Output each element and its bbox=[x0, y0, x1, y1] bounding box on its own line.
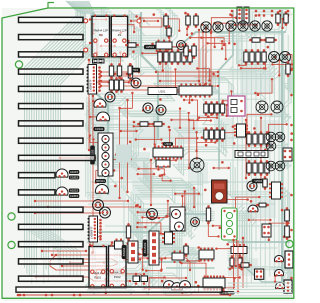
transistor Q102 bbox=[172, 283, 183, 291]
transistor Q103 bbox=[180, 281, 191, 289]
label A301 bbox=[252, 179, 264, 184]
inductor L212 bbox=[226, 21, 236, 31]
heatsink fin bbox=[19, 276, 84, 281]
heatsink fin bbox=[19, 121, 84, 126]
capacitor C101 bbox=[133, 273, 140, 285]
inductor L7 bbox=[266, 161, 276, 171]
transistor Q4 bbox=[56, 187, 68, 195]
resistor R97 bbox=[184, 243, 188, 257]
transistor Q5b bbox=[96, 185, 109, 194]
resistor R94 bbox=[256, 203, 269, 207]
inductor L201 bbox=[269, 52, 280, 63]
board clearance channels bbox=[86, 14, 228, 295]
node pad P1L bbox=[84, 19, 88, 52]
resistor R221 bbox=[250, 49, 254, 65]
svg-text:C1815: C1815 bbox=[70, 176, 79, 180]
svg-text:U201: U201 bbox=[158, 90, 166, 94]
capacitor C50 bbox=[147, 209, 158, 220]
resistor R120 bbox=[126, 223, 130, 241]
capacitor C40 bbox=[247, 181, 257, 191]
connector X6 bbox=[284, 280, 292, 293]
resistor R207 bbox=[128, 63, 132, 77]
resistor R209 bbox=[192, 43, 196, 59]
inductor L4 bbox=[266, 132, 276, 142]
heatsink fin bbox=[19, 155, 96, 160]
node U1 pads bbox=[98, 66, 101, 92]
resistor R43 bbox=[128, 63, 132, 81]
connector AS1 bbox=[98, 133, 113, 177]
connector X4 bbox=[262, 224, 271, 237]
svg-text:P102: P102 bbox=[114, 275, 121, 279]
IC U5 bbox=[162, 232, 175, 244]
resistor R208 bbox=[184, 43, 188, 59]
svg-text:AS152/3: AS152/3 bbox=[143, 242, 147, 253]
label Q4b bbox=[69, 194, 80, 198]
svg-text:P101: P101 bbox=[94, 276, 101, 280]
inductor L3 bbox=[190, 158, 204, 172]
resistor R44 bbox=[109, 77, 113, 93]
inductor L2 bbox=[271, 101, 283, 113]
capacitor C205 bbox=[131, 78, 141, 88]
wire red verticals BR bbox=[232, 237, 244, 294]
connector AS3 bbox=[149, 231, 159, 265]
resistor R50 bbox=[151, 122, 165, 126]
heatsink fin bbox=[19, 224, 84, 229]
resistor R205 bbox=[249, 38, 263, 42]
capacitor C21 bbox=[156, 105, 166, 115]
trimmer RP1 bbox=[170, 207, 185, 231]
IC U202 bbox=[179, 83, 212, 97]
resistor R81 bbox=[209, 127, 213, 142]
IC U3 bbox=[153, 145, 183, 159]
capacitor C102 bbox=[141, 273, 148, 285]
module A1 bbox=[228, 96, 245, 116]
IC U7 bbox=[203, 275, 225, 290]
capacitor C22 bbox=[105, 92, 115, 102]
relay P2 bbox=[111, 14, 127, 56]
transistor Q1 bbox=[94, 99, 106, 107]
connector X1 bbox=[237, 7, 242, 23]
label AS3 bbox=[143, 240, 148, 257]
resistor R222 bbox=[256, 49, 260, 65]
transistor Q106 bbox=[276, 282, 285, 289]
label Q3b bbox=[69, 176, 80, 180]
resistor R860 bbox=[259, 131, 263, 147]
node U1B pads bbox=[99, 219, 102, 241]
heatsink fin bbox=[19, 190, 56, 195]
IC U10 bbox=[234, 124, 248, 137]
svg-text:C1815: C1815 bbox=[70, 194, 79, 198]
resistor R204 bbox=[284, 11, 288, 26]
heatsink fin bbox=[19, 207, 84, 212]
transistor Q5 bbox=[248, 205, 258, 212]
heatsink fin bbox=[19, 259, 84, 264]
resistor R73 bbox=[220, 101, 224, 116]
inductor L214 bbox=[250, 21, 260, 31]
label A2535 bbox=[128, 68, 140, 73]
resistor R82 bbox=[215, 127, 219, 142]
resistor R851 bbox=[253, 131, 257, 147]
relay K1 bbox=[222, 208, 238, 240]
resistor R850 bbox=[247, 131, 251, 147]
resistor R80 bbox=[204, 127, 208, 142]
IC U11 bbox=[235, 151, 268, 158]
relay P101 bbox=[89, 245, 107, 289]
IC U4 bbox=[269, 182, 283, 199]
resistor R220 bbox=[244, 49, 248, 65]
resistor R49 bbox=[137, 122, 151, 126]
transistor Q2 bbox=[97, 112, 110, 121]
label AS302 bbox=[122, 245, 127, 259]
resistor R72 bbox=[215, 101, 219, 116]
heatsink fin bbox=[19, 104, 84, 109]
resistor R95b bbox=[285, 223, 290, 240]
svg-text:AS302: AS302 bbox=[122, 247, 126, 256]
mounting hole bbox=[286, 240, 293, 247]
heatsink fin bbox=[19, 35, 84, 40]
resistor R861 bbox=[265, 131, 269, 147]
wire teal bottom runs bbox=[228, 283, 292, 296]
label U3 bbox=[163, 142, 173, 146]
svg-text:RWH4 12P: RWH4 12P bbox=[94, 29, 108, 33]
resistor R214 bbox=[182, 49, 186, 65]
IC U1B bbox=[88, 216, 98, 242]
IC U301 bbox=[172, 250, 184, 263]
resistor R71 bbox=[209, 101, 213, 116]
resistor R211 bbox=[164, 49, 168, 65]
resistor R203 bbox=[276, 11, 280, 26]
label A2534 bbox=[144, 45, 156, 50]
resistor R93 bbox=[263, 176, 267, 190]
label Q3a bbox=[69, 170, 80, 174]
inductor L210 bbox=[201, 22, 211, 32]
resistor R212 bbox=[170, 49, 174, 65]
mounting hole bbox=[8, 241, 15, 248]
resistor R103 bbox=[230, 255, 234, 269]
resistor R44b bbox=[114, 77, 118, 93]
inductor L6 bbox=[266, 141, 276, 151]
inductor L211 bbox=[213, 22, 223, 32]
relay P1 bbox=[92, 14, 110, 56]
resistor R881 bbox=[265, 160, 269, 176]
transistor Q104 bbox=[275, 255, 284, 262]
resistor R105 bbox=[238, 263, 252, 267]
capacitor C206 bbox=[177, 41, 186, 50]
heatsink fin bbox=[19, 52, 84, 57]
heatsink fin bbox=[19, 242, 84, 247]
resistor R215 bbox=[188, 49, 192, 65]
capacitor C71 bbox=[100, 207, 111, 218]
transistor Q101 bbox=[164, 281, 175, 289]
svg-text:U301: U301 bbox=[165, 142, 172, 146]
resistor R95a bbox=[285, 207, 290, 224]
resistor R111 bbox=[167, 25, 171, 39]
resistor R870 bbox=[247, 160, 251, 176]
resistor R223 bbox=[262, 49, 266, 65]
resistor R110 bbox=[164, 13, 168, 29]
transistor Q3 bbox=[56, 169, 68, 177]
connector X5 bbox=[285, 251, 293, 268]
mounting hole bbox=[8, 213, 15, 220]
heatsink fin bbox=[19, 17, 84, 22]
resistor R871 bbox=[253, 160, 257, 176]
resistor R210 bbox=[158, 49, 162, 65]
svg-text:A1015: A1015 bbox=[70, 189, 79, 193]
svg-text:P4: P4 bbox=[99, 33, 103, 37]
relay P102 bbox=[109, 244, 127, 288]
svg-text:RP101: RP101 bbox=[96, 179, 105, 183]
IC U12 bbox=[231, 244, 247, 254]
inductor L202 bbox=[280, 52, 291, 63]
heatsink fin bbox=[19, 173, 56, 178]
svg-text:A1015: A1015 bbox=[70, 170, 79, 174]
inductor L8 bbox=[275, 161, 285, 171]
resistor R112 bbox=[125, 43, 139, 47]
connector X2 bbox=[244, 7, 249, 23]
copper pad A bbox=[116, 145, 131, 163]
mounting hole bbox=[15, 61, 22, 68]
IC U8 bbox=[156, 39, 172, 49]
heatsink fin bbox=[19, 138, 84, 143]
inductor L5 bbox=[275, 132, 285, 142]
capacitor C70 bbox=[93, 200, 104, 211]
resistor R104 bbox=[238, 255, 242, 269]
svg-text:LM3886TF: LM3886TF bbox=[88, 79, 92, 92]
inductor L215 bbox=[262, 21, 272, 31]
transistor Q105 bbox=[275, 269, 284, 276]
resistor R202 bbox=[194, 13, 198, 28]
resistor R92 bbox=[206, 205, 210, 224]
resistor R230 bbox=[286, 61, 290, 77]
capacitor C20 bbox=[143, 103, 153, 113]
resistor R201 bbox=[186, 13, 190, 28]
wire bottom red trace bbox=[19, 294, 232, 297]
IC U1 bbox=[87, 65, 97, 95]
IC U6 bbox=[199, 247, 214, 261]
bridge rectifier B1 bbox=[212, 180, 228, 203]
label C3344 bbox=[94, 127, 105, 131]
svg-text:P2: P2 bbox=[118, 33, 122, 37]
IC U13 bbox=[115, 238, 124, 249]
board outline notch bbox=[48, 3, 54, 9]
resistor R213 bbox=[176, 49, 180, 65]
capacitor C60 bbox=[255, 269, 264, 279]
heatsink bottom rail bbox=[16, 287, 222, 292]
IC U201 bbox=[148, 88, 177, 95]
IC U9 bbox=[156, 160, 170, 168]
resistor R83 bbox=[220, 127, 224, 142]
label U7 bbox=[220, 291, 235, 295]
label Q4a bbox=[69, 189, 80, 193]
svg-text:RWH4 12P: RWH4 12P bbox=[112, 29, 126, 33]
label RP101 bbox=[95, 179, 106, 183]
capacitor C51 bbox=[191, 218, 200, 227]
resistor R880 bbox=[259, 160, 263, 176]
label AS1 bbox=[90, 146, 95, 165]
svg-text:LM3886TF: LM3886TF bbox=[89, 226, 93, 239]
resistor R42 bbox=[117, 63, 121, 79]
svg-text:C3344: C3344 bbox=[95, 127, 104, 131]
resistor R70 bbox=[204, 101, 208, 116]
connector AS302 bbox=[128, 241, 138, 263]
heatsink fin bbox=[19, 69, 84, 74]
connector X3 bbox=[283, 148, 292, 161]
heatsink fin bbox=[19, 86, 84, 91]
resistor R44c bbox=[119, 77, 123, 93]
fuse F1 bbox=[93, 59, 105, 63]
inductor L213 bbox=[238, 21, 248, 31]
resistor R41 bbox=[109, 63, 113, 79]
svg-text:A2534: A2534 bbox=[146, 45, 155, 49]
inductor L1 bbox=[256, 101, 268, 113]
resistor R206 bbox=[263, 38, 277, 42]
